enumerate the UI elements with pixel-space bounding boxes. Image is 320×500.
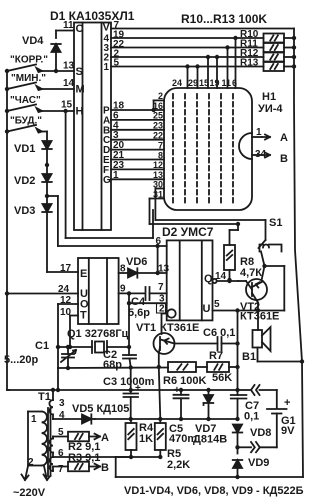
svg-text:2,2K: 2,2K (167, 459, 190, 471)
svg-text:E: E (80, 268, 87, 280)
svg-text:R10...R13 100K: R10...R13 100K (181, 12, 267, 26)
mains input arrows ~220V (22, 466, 29, 480)
svg-text:G: G (103, 175, 111, 186)
svg-text:6: 6 (156, 236, 162, 247)
svg-text:S1: S1 (269, 217, 282, 229)
svg-text:M: M (76, 84, 85, 96)
wire digit 3 pin 22 (111, 47, 264, 49)
alarm wire VD2/VD3 node to D2 pin 6 (47, 195, 58, 197)
display pin 2 link from P wire (151, 108, 155, 112)
capacitor C4 5.6p (145, 287, 147, 300)
svg-text:5: 5 (214, 299, 220, 310)
IC D1 upper section box (74, 23, 111, 231)
IC D1 lower section box (78, 258, 119, 324)
svg-text:VD1-VD4, VD6, VD8, VD9 - КД522: VD1-VD4, VD6, VD8, VD9 - КД522Б (124, 485, 304, 497)
svg-text:13: 13 (158, 264, 170, 275)
svg-text:VD5 КД105: VD5 КД105 (72, 403, 129, 415)
aux wire to display bottom pin (63, 109, 67, 113)
svg-text:VD2: VD2 (14, 175, 35, 187)
svg-text:+: + (135, 383, 141, 394)
svg-text:КТ361Е: КТ361Е (160, 322, 199, 334)
svg-text:15: 15 (199, 78, 209, 88)
svg-text:13: 13 (63, 61, 75, 72)
svg-text:9: 9 (120, 284, 126, 295)
svg-text:Q: Q (204, 273, 213, 285)
wire VD6 node up to D2 pin 13 / pin 6 (157, 246, 159, 273)
D2 pin 2 inversion circle (167, 309, 175, 317)
D1 pin 10 T wire (70, 315, 78, 317)
svg-text:56K: 56K (212, 372, 232, 384)
right supply bus (294, 29, 303, 478)
svg-text:Н1: Н1 (262, 91, 276, 103)
svg-text:H: H (76, 106, 84, 118)
svg-text:5: 5 (114, 58, 120, 69)
svg-text:11: 11 (63, 20, 74, 31)
svg-text:VT1: VT1 (136, 322, 156, 334)
svg-text:УИ-4: УИ-4 (258, 103, 283, 115)
T1 core (47, 408, 49, 476)
svg-text:6: 6 (232, 78, 237, 88)
display grid dashed lines (172, 94, 174, 204)
wire BUD to VD1 (46, 132, 48, 141)
supply row B from left bus (9, 389, 238, 391)
svg-text:11: 11 (222, 78, 232, 88)
vacuum indicator H1 UI-4 box (164, 88, 252, 210)
svg-text:~220V: ~220V (13, 487, 46, 499)
svg-text:A: A (101, 432, 109, 444)
svg-text:0,1: 0,1 (244, 411, 259, 423)
segment wires from D1 to display (111, 109, 164, 111)
rectified supply rail (95, 418, 238, 420)
svg-text:VD6: VD6 (126, 256, 147, 268)
svg-text:VD1: VD1 (14, 143, 35, 155)
wire T pin down (69, 316, 71, 348)
svg-text:1: 1 (31, 414, 37, 425)
supply row A (57, 367, 59, 369)
VT1 collector rail down (159, 367, 161, 419)
VT1 collector (159, 347, 160, 353)
svg-text:B1: B1 (242, 351, 256, 363)
svg-text:VD8: VD8 (250, 427, 271, 439)
svg-text:C3 1000m: C3 1000m (103, 376, 155, 388)
svg-text:V: V (103, 22, 111, 34)
D2 pin 2 with box (157, 304, 166, 314)
svg-text:"МИН.": "МИН." (11, 73, 46, 84)
lower jack connector (251, 442, 260, 452)
VT2 base wire (238, 280, 246, 282)
svg-text:1: 1 (104, 62, 110, 73)
wire T1 pin 6 row (53, 456, 160, 458)
grid drop wires to display top pins (233, 36, 237, 40)
VT2 emitter wire from S1 node (262, 266, 265, 281)
svg-text:C6 0,1: C6 0,1 (203, 327, 235, 339)
wire VD3 to D1 pin 17 E (47, 271, 78, 273)
wire D2 pin2 to VT1 base (162, 313, 168, 315)
headphone jack connector (238, 389, 252, 391)
svg-text:15: 15 (61, 100, 73, 111)
svg-text:9V: 9V (281, 425, 295, 437)
svg-text:R7: R7 (209, 350, 223, 362)
svg-text:D2 УМС7: D2 УМС7 (162, 225, 214, 239)
svg-text:8: 8 (120, 264, 126, 275)
svg-text:1K: 1K (139, 433, 153, 445)
wire pin9 node down to D2 pin 3 and crystal (128, 293, 130, 347)
svg-text:S: S (76, 66, 83, 78)
svg-text:VD9: VD9 (248, 457, 269, 469)
D1 pin 12 O wire (58, 303, 78, 305)
VT1 emitter with arrow (161, 339, 175, 344)
filament arc symbol (239, 133, 252, 159)
svg-text:7: 7 (158, 282, 164, 293)
ground bus bottom (116, 476, 303, 478)
stub to R8 top (237, 224, 239, 230)
svg-text:Т1: Т1 (38, 391, 51, 403)
svg-text:19: 19 (210, 78, 220, 88)
svg-text:68p: 68p (103, 359, 122, 371)
svg-text:U: U (203, 303, 211, 315)
D1 pin 24 U wire to left bus (7, 293, 78, 295)
svg-text:C1: C1 (35, 340, 49, 352)
svg-text:5,6p: 5,6p (128, 307, 150, 319)
svg-text:12: 12 (60, 295, 72, 306)
svg-text:VD3: VD3 (14, 205, 35, 217)
svg-text:24: 24 (58, 284, 70, 295)
svg-text:Д814В: Д814В (193, 434, 227, 446)
svg-text:R6 100K: R6 100K (163, 375, 206, 387)
svg-text:A: A (280, 132, 288, 144)
svg-text:Q1 32768Гц: Q1 32768Гц (67, 328, 129, 340)
D1 pin 9 wire with C4 to D2 pin 7 (119, 292, 145, 294)
svg-text:T: T (80, 310, 87, 322)
svg-text:B: B (280, 153, 288, 165)
svg-text:17: 17 (60, 263, 72, 274)
wire digit 1 pin 5 (111, 66, 264, 68)
svg-text:+: + (284, 397, 290, 409)
wire digit 4 pin 19 (111, 37, 264, 39)
wire digit 2 pin 2 (111, 56, 264, 58)
svg-text:1: 1 (113, 170, 119, 181)
svg-text:КТ361Е: КТ361Е (240, 311, 279, 323)
wire O pin down (57, 304, 59, 390)
svg-text:C: C (76, 23, 84, 35)
main vertical node wire (237, 311, 239, 396)
svg-text:3: 3 (59, 398, 65, 409)
pin 7 V supply wire (111, 28, 294, 30)
wire display pin 30 to S1/R8 (155, 188, 164, 190)
svg-text:14: 14 (63, 78, 75, 89)
svg-text:B: B (101, 462, 109, 474)
svg-text:VD4: VD4 (22, 35, 44, 47)
svg-text:4,7К: 4,7К (240, 267, 262, 279)
svg-text:5...20p: 5...20p (4, 354, 39, 366)
left bus (6, 71, 8, 390)
svg-text:"БУД.": "БУД." (10, 116, 42, 127)
svg-text:+: + (174, 385, 180, 396)
wire display pin 31 to R8 node (150, 198, 165, 200)
svg-text:"КОРР.": "КОРР." (10, 55, 48, 66)
svg-text:24: 24 (172, 78, 182, 88)
svg-text:R13: R13 (240, 58, 259, 69)
svg-text:29: 29 (188, 78, 198, 88)
